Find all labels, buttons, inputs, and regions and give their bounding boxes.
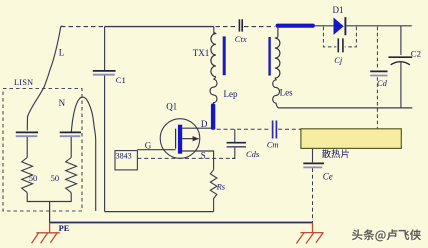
capacitor LISN-CL bottom plate bbox=[16, 135, 38, 137]
diode D1 bbox=[334, 18, 344, 35]
wire: primary ground return bbox=[105, 211, 214, 213]
svg-text:D: D bbox=[201, 119, 208, 129]
capacitor Ce top lead bbox=[312, 148, 314, 162]
svg-text:Rs: Rs bbox=[216, 181, 226, 191]
svg-text:Cds: Cds bbox=[246, 149, 260, 159]
svg-text:LISN: LISN bbox=[14, 78, 33, 87]
capacitor C2 top lead bbox=[400, 26, 402, 55]
node corner at L bbox=[61, 25, 64, 27]
wire: Cm to heatsink dashed bbox=[278, 128, 300, 130]
ground earth symbol (right, red) bbox=[296, 223, 323, 244]
wire: drain connection bbox=[182, 127, 211, 129]
wire: rail below C1 down to primary ground bbox=[104, 76, 106, 212]
heatsink block bbox=[301, 129, 401, 149]
wire: LISN ground drop bbox=[49, 202, 51, 223]
wire: source connection bbox=[182, 151, 214, 170]
capacitor LISN-CN top plate bbox=[60, 131, 81, 133]
transistor Q1 body circle bbox=[160, 119, 200, 159]
capacitor C1 top plate bbox=[93, 70, 116, 72]
wire: main vertical rail (C1 branch) bbox=[104, 27, 106, 70]
wire: N conductor arch bbox=[71, 97, 95, 211]
wire: primary bottom to Lep bbox=[214, 77, 216, 80]
capacitor Cd plates bbox=[370, 70, 387, 72]
inductor Les (secondary leakage) bbox=[273, 78, 280, 108]
svg-text:Cj: Cj bbox=[334, 55, 343, 65]
inductor TX1 primary winding bbox=[211, 33, 216, 77]
LISN dashed box bbox=[3, 89, 82, 212]
capacitor Cds bottom lead bbox=[232, 148, 235, 159]
IC U1 box (3843) bbox=[115, 151, 137, 170]
svg-text:C1: C1 bbox=[116, 75, 126, 85]
wire: secondary return bbox=[278, 107, 412, 109]
resistor 50 (left) bbox=[22, 158, 33, 193]
capacitor Cds top lead bbox=[234, 129, 236, 142]
wire: CN to resistor bbox=[70, 137, 72, 158]
svg-text:Ctx: Ctx bbox=[235, 34, 247, 44]
svg-text:PE: PE bbox=[59, 224, 70, 233]
wire: secondary hot node bold bar bbox=[276, 24, 315, 28]
svg-text:G: G bbox=[145, 141, 152, 151]
capacitor Cm plates bbox=[272, 121, 274, 139]
watermark bbox=[353, 230, 422, 242]
inductor Lep (primary leakage) bbox=[210, 79, 217, 103]
wire: bold bar to D1 anode bbox=[315, 25, 334, 27]
resistor 50 (right) bbox=[66, 158, 77, 193]
wire: resistor bottoms join bbox=[27, 193, 71, 202]
capacitor C2 plates bbox=[388, 56, 412, 58]
wire: drain node thick bar bbox=[211, 104, 215, 130]
wire: D1 cathode to output bbox=[346, 25, 412, 27]
capacitor Cj dashed loop bbox=[323, 27, 336, 47]
wire: secondary top lead bbox=[277, 28, 279, 37]
wire: L conductor (slanted) bbox=[27, 27, 60, 131]
wire: top-left dashed segment (mains L to rail) bbox=[61, 26, 105, 28]
transistor Q1 channel bar bbox=[178, 125, 182, 154]
transformer core bar (right) bbox=[268, 37, 270, 76]
svg-text:D1: D1 bbox=[333, 5, 344, 15]
svg-text:TX1: TX1 bbox=[193, 48, 210, 58]
wire: PE ground bus bbox=[50, 222, 313, 224]
svg-text:Cd: Cd bbox=[377, 78, 388, 88]
wire: dashed gate-return noise path bbox=[137, 157, 234, 159]
capacitor LISN-CN bottom plate bbox=[60, 135, 81, 137]
svg-text:Q1: Q1 bbox=[166, 102, 177, 112]
wire: CL to resistor bbox=[26, 137, 28, 158]
svg-text:Cm: Cm bbox=[267, 139, 279, 149]
transformer core bar (left) bbox=[223, 36, 226, 75]
svg-text:C2: C2 bbox=[411, 49, 421, 59]
wire: drain dashed noise path bbox=[217, 128, 271, 130]
capacitor C1 bottom plate bbox=[93, 74, 115, 76]
capacitor C2 bottom lead bbox=[400, 62, 402, 108]
transistor Q1 gate line bbox=[175, 129, 177, 149]
capacitor Ce plates bbox=[303, 162, 324, 164]
wire: top rail bbox=[105, 26, 214, 28]
wire: primary top lead bbox=[213, 27, 215, 34]
capacitor Ctx dashed link (right) bbox=[244, 26, 275, 28]
svg-text:Lep: Lep bbox=[224, 89, 238, 99]
resistor Rs bbox=[210, 170, 217, 212]
svg-text:S: S bbox=[201, 151, 206, 161]
svg-text:L: L bbox=[59, 48, 65, 58]
wire: gate connection bbox=[137, 149, 175, 151]
heatsink label bbox=[322, 149, 349, 158]
svg-text:Ce: Ce bbox=[323, 172, 333, 182]
ground earth symbol (left, red) bbox=[32, 223, 60, 244]
capacitor Ctx dashed link (left) bbox=[216, 26, 238, 28]
svg-text:Les: Les bbox=[280, 88, 293, 98]
svg-text:N: N bbox=[59, 98, 66, 108]
svg-text:50: 50 bbox=[29, 173, 38, 183]
svg-text:50: 50 bbox=[51, 173, 60, 183]
capacitor Ce dashed ground lead bbox=[312, 168, 314, 222]
capacitor Cj plates bbox=[337, 38, 339, 52]
capacitor Cd dashed top lead bbox=[376, 27, 378, 70]
inductor TX1 secondary winding bbox=[275, 36, 280, 78]
capacitor Cd dashed bottom lead bbox=[376, 77, 378, 128]
capacitor Cds plates bbox=[227, 142, 246, 144]
transistor Q1 body arrow bbox=[182, 138, 199, 140]
capacitor Ctx plates bbox=[238, 19, 240, 31]
capacitor LISN-CL top plate bbox=[16, 131, 38, 133]
svg-text:3843: 3843 bbox=[116, 152, 132, 161]
